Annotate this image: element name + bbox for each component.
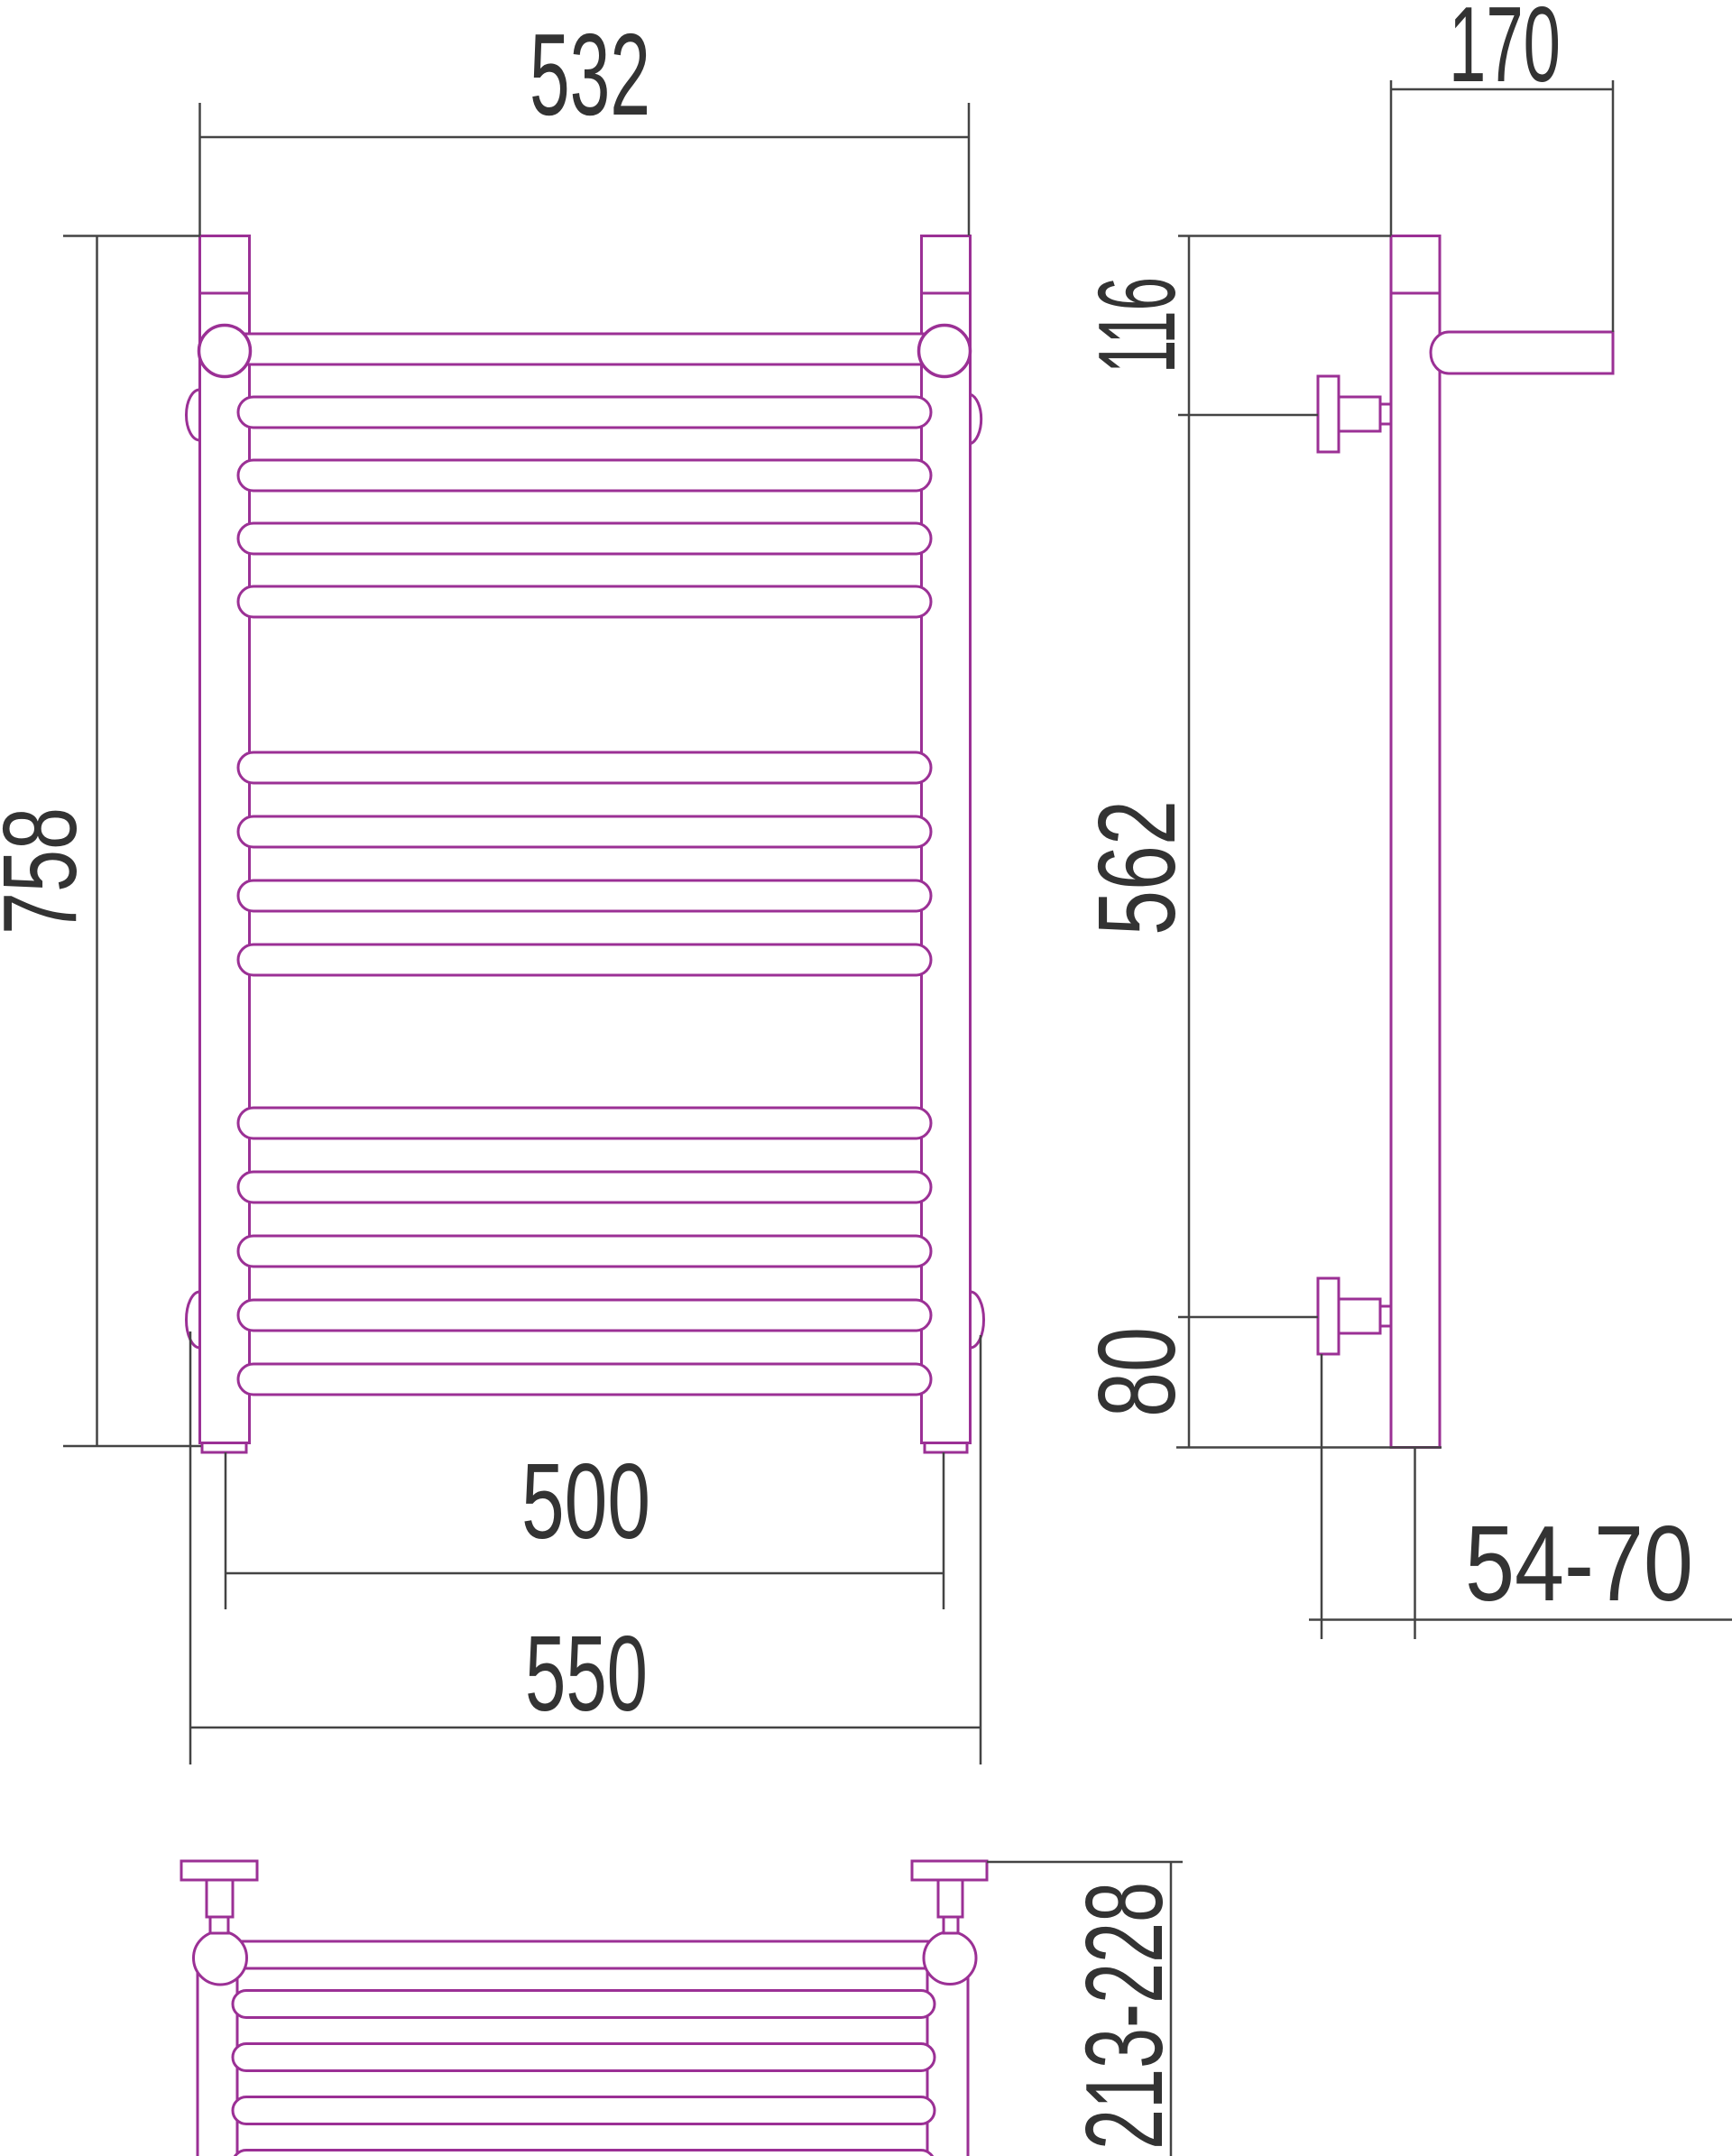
svg-text:116: 116: [1075, 277, 1198, 373]
svg-text:562: 562: [1075, 800, 1198, 935]
svg-text:550: 550: [525, 1614, 648, 1734]
svg-text:532: 532: [530, 10, 650, 140]
svg-text:80: 80: [1075, 1327, 1198, 1417]
svg-text:213-228: 213-228: [1063, 1882, 1185, 2150]
svg-text:500: 500: [521, 1442, 650, 1562]
svg-text:170: 170: [1449, 0, 1561, 105]
svg-text:758: 758: [0, 807, 98, 935]
svg-text:54-70: 54-70: [1465, 1504, 1693, 1624]
